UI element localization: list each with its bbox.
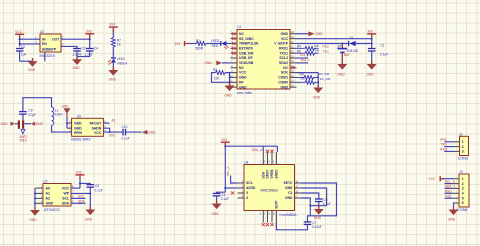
svg-text:NC: NC — [283, 66, 288, 70]
svg-text:GND: GND — [316, 32, 324, 36]
svg-text:A1: A1 — [46, 192, 50, 196]
svg-text:10R: 10R — [314, 45, 319, 48]
pin stubs left — [238, 183, 245, 198]
svg-text:SCL_A: SCL_A — [300, 53, 309, 57]
svg-text:1: 1 — [462, 177, 464, 181]
svg-text:0.1uF: 0.1uF — [95, 188, 103, 192]
capacitor C10 0.1uF — [122, 125, 142, 140]
svg-text:4: 4 — [246, 196, 248, 200]
svg-text:3V3: 3V3 — [367, 30, 373, 34]
wire VCC to 3V3 rail — [297, 38, 372, 40]
svg-text:10uH: 10uH — [55, 113, 63, 117]
svg-text:SCL: SCL — [78, 195, 84, 199]
svg-text:1: 1 — [462, 140, 464, 144]
wire VCC — [71, 187, 80, 189]
svg-text:VDDUSB: VDDUSB — [239, 61, 254, 65]
ground — [225, 86, 235, 98]
svg-text:3V3: 3V3 — [109, 133, 115, 137]
svg-text:WP: WP — [64, 192, 70, 196]
svg-text:PPS: PPS — [440, 138, 446, 142]
svg-text:SDA2: SDA2 — [279, 61, 288, 65]
wire AVDD — [225, 187, 237, 189]
svg-text:GND: GND — [448, 217, 456, 221]
svg-text:USB_DM: USB_DM — [239, 51, 253, 55]
node — [19, 38, 21, 40]
svg-text:0.1uF: 0.1uF — [122, 136, 130, 140]
pin stubs left — [35, 188, 43, 203]
connector J2 CON6 — [457, 170, 469, 212]
svg-text:GND: GND — [280, 32, 288, 36]
svg-text:C3: C3 — [81, 47, 85, 51]
svg-text:VCC: VCC — [94, 131, 102, 135]
net GND arrow — [142, 130, 156, 135]
svg-text:BAT: BAT — [344, 53, 350, 57]
pin stubs bottom — [263, 211, 276, 223]
svg-text:C1: C1 — [381, 44, 385, 48]
resistor R8 — [297, 72, 319, 79]
node — [317, 81, 319, 83]
svg-text:SCL2: SCL2 — [279, 56, 288, 60]
svg-text:NC: NC — [239, 66, 244, 70]
wire — [23, 98, 52, 112]
svg-text:OUT: OUT — [52, 37, 60, 41]
net SDA_A — [252, 146, 264, 152]
wire BYP — [61, 46, 77, 48]
net TXD — [445, 194, 454, 198]
node — [371, 43, 373, 45]
no-connect marks top — [266, 150, 274, 153]
net SCL_A vertical — [226, 166, 237, 183]
svg-text:SDA_A: SDA_A — [301, 58, 310, 62]
svg-text:GND: GND — [36, 122, 44, 126]
svg-text:EN: EN — [42, 42, 47, 46]
pin numbers — [41, 186, 43, 203]
svg-text:IN: IN — [42, 37, 46, 41]
no-connect right pin — [291, 66, 294, 69]
resistor R1 560R — [196, 39, 207, 50]
ground — [337, 64, 347, 77]
svg-text:MIC5219: MIC5219 — [40, 54, 55, 58]
wire — [77, 51, 90, 57]
capacitor C1 0.1uF — [368, 44, 388, 65]
svg-text:RF: RF — [239, 80, 244, 84]
svg-text:16: 16 — [263, 162, 266, 164]
svg-text:NC: NC — [239, 32, 244, 36]
svg-text:SS_N/NC: SS_N/NC — [239, 37, 254, 41]
svg-text:C4: C4 — [94, 47, 98, 51]
svg-text:USB_DP: USB_DP — [239, 56, 253, 60]
node — [224, 187, 226, 189]
pin numbers — [35, 38, 64, 47]
power 3V3 — [367, 30, 376, 49]
ground — [448, 210, 459, 222]
svg-text:TIMEPULSE: TIMEPULSE — [239, 42, 259, 46]
svg-text:I2C_S/M: I2C_S/M — [320, 77, 331, 81]
svg-text:GND: GND — [85, 218, 93, 222]
pin stubs — [453, 179, 459, 203]
amplifier U5 GNSS MAX — [71, 115, 104, 142]
svg-text:6: 6 — [462, 201, 464, 205]
node — [34, 202, 36, 204]
svg-text:RFIN: RFIN — [74, 131, 82, 135]
wire WP — [71, 192, 90, 194]
svg-text:SDA_S: SDA_S — [445, 185, 455, 189]
capacitor C5 0.1uF — [87, 184, 103, 209]
wire V_BCKP — [297, 43, 349, 45]
pin numbers — [69, 121, 106, 132]
svg-text:TXD: TXD — [323, 49, 330, 53]
node — [19, 43, 21, 45]
pin numbers left — [230, 32, 233, 87]
op-amp U2 regulator MIC5219 — [40, 30, 62, 58]
net SCL_A — [297, 53, 309, 58]
svg-text:SCL: SCL — [62, 197, 69, 201]
ground — [30, 210, 41, 222]
svg-text:D1: D1 — [350, 36, 354, 40]
ground — [313, 88, 323, 100]
svg-text:I2C_S/M: I2C_S/M — [319, 72, 330, 76]
svg-text:1: 1 — [260, 162, 262, 164]
svg-text:3: 3 — [462, 187, 464, 191]
svg-text:SDA: SDA — [78, 200, 85, 204]
svg-text:GND: GND — [74, 126, 82, 130]
wire SCK — [297, 72, 319, 74]
svg-text:GND: GND — [239, 85, 247, 89]
svg-text:10K: 10K — [214, 77, 221, 81]
wire pin6 to gnd — [452, 203, 455, 210]
svg-text:R1: R1 — [196, 39, 200, 43]
svg-text:GND: GND — [74, 121, 82, 125]
power VCC — [15, 30, 24, 47]
pin stubs right — [295, 183, 302, 198]
svg-text:GND: GND — [1, 122, 9, 126]
svg-text:4: 4 — [462, 192, 464, 196]
svg-text:EXTINT0: EXTINT0 — [239, 46, 253, 50]
svg-text:V_BCKP: V_BCKP — [274, 42, 288, 46]
wire RFOUT with net A2 — [103, 119, 115, 124]
pin numbers right — [291, 32, 294, 87]
node — [109, 131, 111, 133]
svg-text:IPEX: IPEX — [20, 139, 28, 143]
pin stubs — [454, 142, 460, 152]
svg-text:VCC: VCC — [281, 37, 289, 41]
svg-text:GNSS MAX: GNSS MAX — [71, 137, 92, 141]
net SDA — [71, 200, 86, 204]
svg-text:GND: GND — [313, 95, 321, 99]
svg-text:GND: GND — [367, 73, 375, 77]
wire SETC loop — [301, 183, 337, 216]
svg-text:SETP: SETP — [275, 200, 279, 209]
net SDA_A — [297, 58, 310, 63]
svg-text:hmc5883L: hmc5883L — [280, 213, 298, 217]
resistor R5 with net GPS_TXD — [297, 49, 330, 55]
power 3V3 — [85, 29, 94, 48]
net TXD — [440, 143, 453, 147]
svg-text:3V3: 3V3 — [109, 23, 115, 27]
node — [89, 193, 91, 195]
node — [341, 43, 343, 45]
wire GND row2 — [301, 198, 310, 216]
svg-text:SCL: SCL — [246, 181, 253, 185]
resistor R4 with net GPS_RXD — [297, 45, 330, 51]
wire — [52, 125, 72, 132]
power 3V3 — [76, 171, 85, 189]
svg-text:SDA: SDA — [62, 202, 70, 206]
no-connect mark pin3 — [231, 191, 234, 194]
net GND arrow to VDDUSB — [205, 61, 231, 66]
svg-text:2: 2 — [462, 145, 464, 149]
net RXD — [440, 148, 453, 152]
svg-text:A0: A0 — [46, 186, 50, 190]
net SCL — [71, 195, 86, 199]
pin stubs top — [263, 152, 276, 165]
svg-text:C2: C2 — [21, 45, 25, 49]
svg-text:RXD: RXD — [440, 148, 447, 152]
svg-text:A2: A2 — [112, 119, 116, 123]
svg-text:4: 4 — [260, 214, 262, 216]
net 3V3 label left — [175, 41, 197, 46]
svg-text:TXD: TXD — [440, 143, 447, 147]
svg-text:0.22uF: 0.22uF — [312, 225, 322, 229]
svg-text:3V3: 3V3 — [86, 29, 92, 33]
wire — [44, 52, 46, 61]
svg-text:C10: C10 — [122, 125, 128, 129]
LED LED2 on timepulse — [206, 39, 231, 49]
svg-text:GND: GND — [30, 218, 38, 222]
node — [317, 77, 319, 79]
svg-text:VCC: VCC — [15, 30, 22, 34]
svg-text:3: 3 — [246, 191, 248, 195]
capacitor C7 0.22uF — [276, 216, 321, 230]
node — [229, 81, 231, 83]
svg-text:VREN: VREN — [270, 169, 274, 179]
svg-text:CON6: CON6 — [457, 208, 468, 212]
no-connect marks bottom — [262, 223, 274, 226]
pin numbers hmc — [242, 162, 299, 216]
svg-text:U1: U1 — [237, 25, 241, 29]
svg-text:TXD: TXD — [445, 194, 452, 198]
svg-text:3V3: 3V3 — [221, 138, 227, 142]
svg-text:GND: GND — [205, 61, 213, 65]
capacitor C3 — [73, 47, 86, 58]
capacitor C9 47pF — [19, 109, 36, 121]
wire OUT to 3V3 — [61, 38, 90, 40]
wire GND row loop — [301, 188, 327, 206]
svg-text:SDA_A: SDA_A — [252, 148, 263, 152]
svg-text:RED: RED — [212, 44, 219, 48]
wire left bus — [34, 188, 36, 210]
eeprom U3 AT24C02 — [43, 180, 71, 212]
power VCC — [429, 176, 454, 181]
wire VCC row — [103, 131, 122, 133]
net SDA_S — [445, 185, 456, 189]
svg-text:DRDY: DRDY — [266, 169, 270, 179]
svg-text:5: 5 — [462, 196, 464, 200]
svg-text:GND: GND — [28, 68, 36, 72]
svg-text:10R: 10R — [315, 50, 320, 53]
capacitor C6 0.1uF — [213, 192, 229, 203]
capacitor C8 4.7uF — [301, 193, 331, 209]
svg-text:GND: GND — [239, 76, 247, 80]
battery BT1 BAT — [337, 44, 350, 65]
svg-text:SCL_S: SCL_S — [445, 180, 455, 184]
node — [309, 205, 311, 207]
svg-text:AT24C02: AT24C02 — [44, 208, 60, 212]
svg-text:CON3: CON3 — [458, 157, 469, 161]
svg-text:0.1uF: 0.1uF — [380, 53, 388, 57]
node — [371, 38, 373, 40]
svg-text:8: 8 — [273, 214, 275, 216]
svg-text:ENDD: ENDD — [275, 169, 279, 179]
svg-text:C1: C1 — [288, 191, 292, 195]
pin stubs right — [290, 34, 297, 87]
svg-text:GND: GND — [338, 73, 346, 77]
wire to pin16 — [276, 146, 278, 152]
svg-text:VCC: VCC — [429, 177, 436, 181]
svg-text:1uF: 1uF — [21, 53, 27, 57]
svg-text:SHDN: SHDN — [92, 126, 102, 130]
symbol stems (red power/gnd stems) — [20, 28, 454, 210]
svg-text:SCL_A: SCL_A — [226, 166, 230, 176]
resistor R2 10K — [213, 68, 231, 80]
svg-text:VCC: VCC — [239, 71, 247, 75]
net PPS — [440, 138, 453, 142]
net GND arrow down — [62, 104, 72, 128]
svg-text:TXD1: TXD1 — [279, 51, 288, 55]
svg-text:3V3: 3V3 — [175, 42, 181, 46]
ground — [212, 204, 222, 216]
resistor R9 — [297, 77, 319, 84]
wire — [20, 43, 40, 45]
svg-text:R9: R9 — [301, 77, 305, 81]
net SCL_S — [445, 180, 455, 184]
svg-text:RED-A: RED-A — [118, 61, 129, 65]
ground — [28, 58, 38, 72]
wire — [20, 38, 40, 40]
svg-text:COM1: COM1 — [278, 76, 288, 80]
node — [79, 182, 81, 184]
svg-text:U2: U2 — [40, 30, 44, 34]
svg-text:3: 3 — [462, 150, 464, 154]
svg-text:GND: GND — [46, 202, 54, 206]
svg-text:R8: R8 — [300, 72, 304, 76]
ground — [72, 57, 82, 71]
antenna ANT1 IPEX — [1, 120, 44, 142]
wire to cap — [80, 183, 90, 184]
svg-text:RXD1: RXD1 — [279, 46, 288, 50]
svg-text:AVDD: AVDD — [246, 186, 256, 190]
svg-text:47pF: 47pF — [28, 113, 35, 117]
ground — [314, 209, 324, 220]
svg-text:1N4148: 1N4148 — [347, 49, 358, 53]
diode D1 1N4148 — [347, 36, 372, 53]
pin stubs left — [231, 34, 238, 87]
svg-text:GND: GND — [148, 131, 156, 135]
gps module U1 neo-m8n — [237, 25, 290, 95]
svg-text:RXD: RXD — [445, 190, 452, 194]
svg-text:GND: GND — [109, 78, 117, 82]
svg-text:A2: A2 — [46, 197, 50, 201]
net GND arrow — [309, 31, 324, 36]
power 3V3 — [109, 23, 118, 38]
svg-text:7: 7 — [264, 214, 266, 216]
svg-text:GND: GND — [285, 196, 293, 200]
compass U4 HMC5883 — [244, 161, 297, 217]
svg-text:15: 15 — [267, 162, 270, 164]
svg-text:GNDBYP: GNDBYP — [42, 48, 57, 52]
svg-text:RFOUT: RFOUT — [90, 121, 103, 125]
wire GND pin1 right — [297, 33, 309, 35]
svg-text:neo-m8n: neo-m8n — [237, 91, 252, 95]
svg-text:3V3: 3V3 — [76, 171, 82, 175]
power 3V3 — [221, 138, 230, 192]
node — [229, 72, 231, 74]
svg-text:560R: 560R — [196, 46, 204, 50]
node — [89, 38, 91, 40]
svg-text:1K: 1K — [117, 43, 122, 47]
svg-text:GND: GND — [62, 104, 70, 108]
svg-text:COM0: COM0 — [278, 80, 288, 84]
svg-text:4.7uF: 4.7uF — [323, 202, 331, 206]
wire gnd bus — [317, 73, 319, 88]
wire R2 left to RF pin — [212, 73, 231, 83]
no-connect marks left pins — [232, 32, 235, 54]
svg-text:GND: GND — [225, 93, 233, 97]
svg-text:GND: GND — [285, 186, 293, 190]
wire SHDN to VCC — [103, 128, 109, 132]
LED LED1 RED-A — [108, 47, 128, 70]
ground — [108, 70, 118, 82]
svg-text:GND: GND — [314, 216, 322, 220]
svg-text:SCK: SCK — [281, 71, 289, 75]
svg-text:VCC: VCC — [62, 186, 70, 190]
svg-text:2: 2 — [462, 182, 464, 186]
node — [229, 77, 231, 79]
net RXD — [445, 190, 454, 194]
svg-text:SETC: SETC — [283, 181, 293, 185]
svg-text:GND: GND — [212, 212, 220, 216]
svg-text:LED2: LED2 — [211, 39, 219, 43]
svg-text:HMC5883: HMC5883 — [261, 188, 278, 192]
wire gnd bus left — [229, 73, 231, 86]
wire 3v3 top rail — [225, 145, 277, 147]
node — [224, 145, 226, 147]
capacitor C2 — [16, 45, 33, 61]
capacitor C4 — [85, 47, 99, 58]
wire — [230, 76, 231, 78]
ground — [367, 64, 377, 77]
node — [34, 193, 36, 195]
svg-text:GND: GND — [73, 66, 81, 70]
svg-text:14: 14 — [272, 162, 275, 164]
ground — [85, 210, 95, 222]
inductor L1 — [52, 107, 64, 125]
node — [34, 198, 36, 200]
svg-text:GND: GND — [280, 85, 288, 89]
connector J1 CON3 — [458, 133, 469, 161]
svg-text:RXD: RXD — [323, 45, 330, 49]
resistor R7 1K — [111, 38, 121, 48]
svg-text:0.1uF: 0.1uF — [221, 197, 229, 201]
